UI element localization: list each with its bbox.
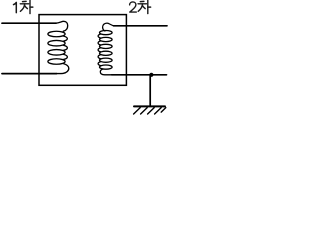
entry dome [56, 21, 68, 31]
entry dome [103, 23, 115, 31]
ground symbol [134, 106, 166, 114]
connector 5-6 [98, 62, 100, 66]
turn 1 [48, 31, 65, 37]
turn 2 [48, 40, 65, 46]
inductor L2 secondary winding [98, 23, 114, 75]
inductor L1 primary winding [48, 21, 69, 73]
wire primary bottom (left lead) [2, 73, 57, 75]
turn 1 [100, 30, 113, 34]
connector 1-2 [98, 34, 100, 38]
turn 6 [100, 65, 113, 69]
connector 4-5 [98, 55, 100, 59]
digit 1 [14, 2, 17, 12]
turn 4 [100, 51, 113, 55]
wire secondary bottom (right lead) [112, 74, 167, 76]
label 2차 (secondary) [130, 0, 151, 13]
connector 3-4 [98, 48, 100, 52]
wire secondary top (right lead) [114, 25, 168, 27]
turn 3 [48, 50, 65, 56]
exit curl to bottom wire [57, 64, 69, 74]
connector 3-4 [64, 54, 68, 59]
junction node (dot) [149, 73, 153, 77]
transformer enclosure box [39, 15, 126, 86]
hangul 차 [138, 0, 151, 13]
wire primary top (left lead) [2, 22, 56, 24]
exit curl to bottom wire [100, 69, 112, 75]
connector 1-2 [64, 36, 68, 41]
wire to ground [149, 75, 151, 106]
connector 2-3 [64, 45, 68, 50]
connector 2-3 [98, 41, 100, 45]
turn 5 [100, 58, 113, 62]
turn 2 [100, 37, 113, 41]
label 1차 (primary) [14, 0, 33, 13]
digit 2 [130, 2, 137, 12]
turn 3 [100, 44, 113, 48]
hangul 차 [20, 0, 33, 13]
turn 4 [48, 59, 65, 65]
